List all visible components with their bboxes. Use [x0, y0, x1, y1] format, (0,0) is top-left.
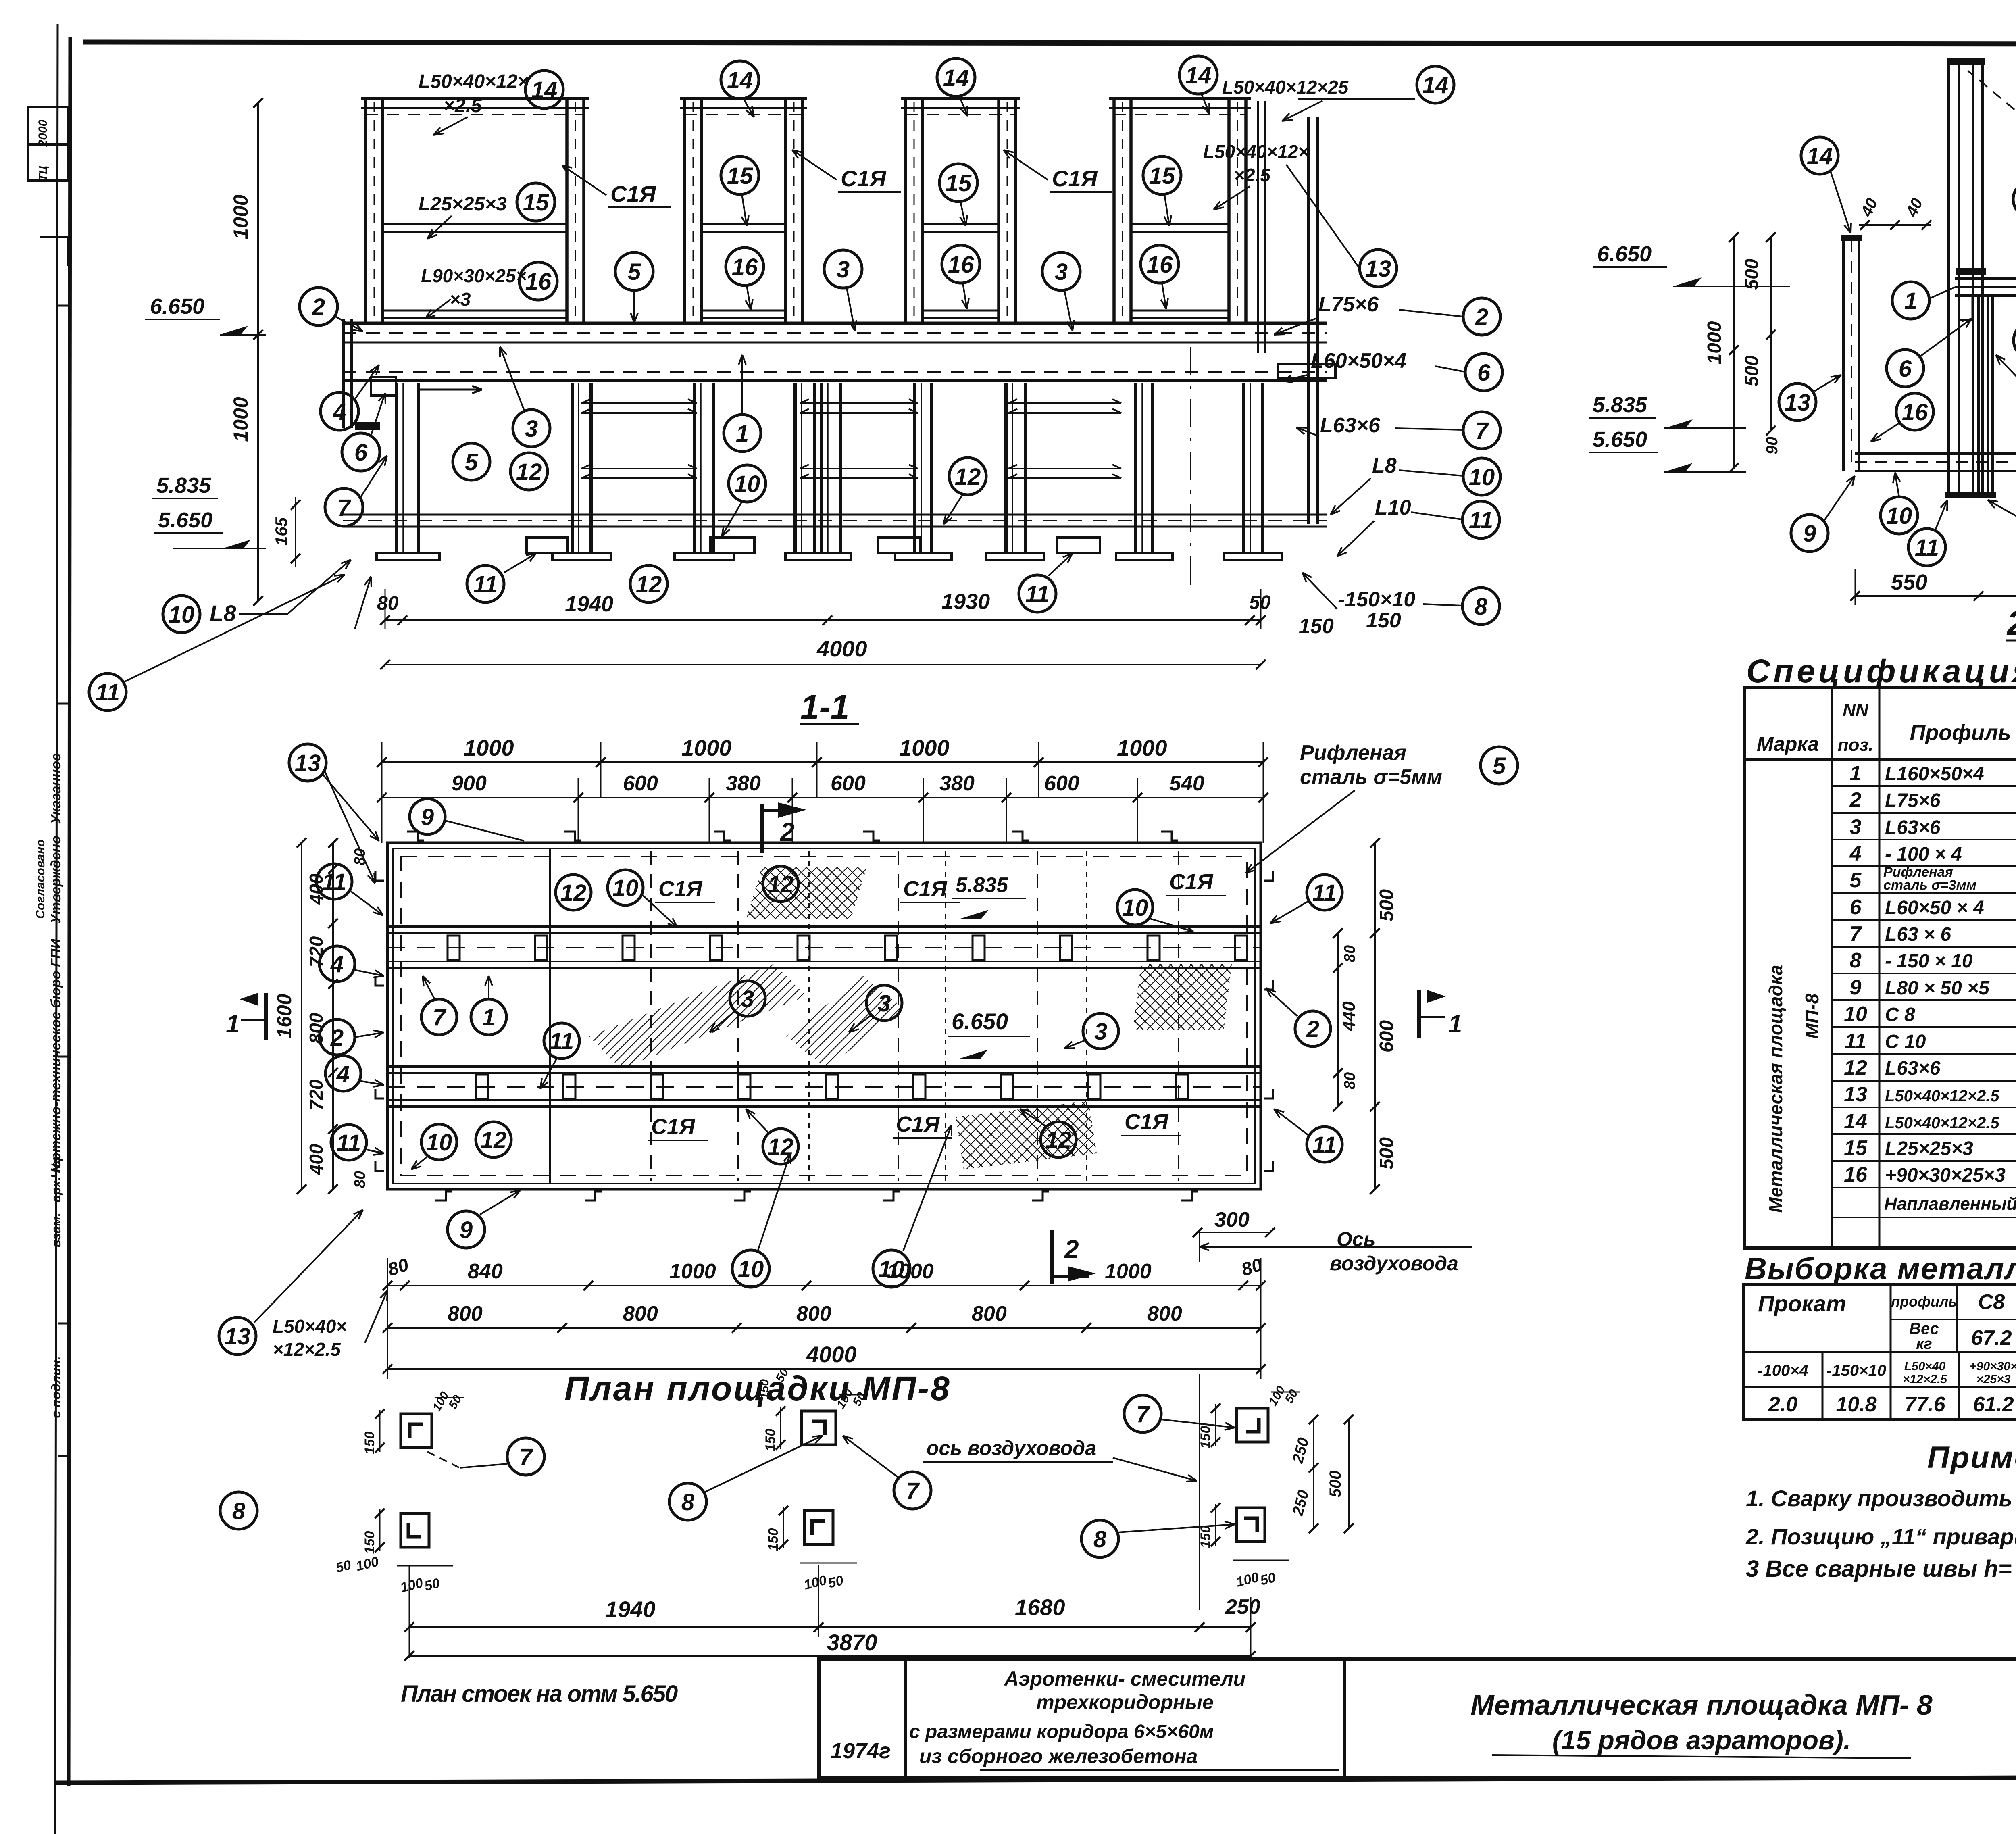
- svg-text:10: 10: [1886, 503, 1912, 529]
- svg-text:13: 13: [1844, 1083, 1867, 1106]
- svg-text:С 10: С 10: [1885, 1031, 1926, 1052]
- svg-text:14: 14: [1844, 1110, 1867, 1133]
- svg-text:8: 8: [1850, 949, 1862, 972]
- svg-text:13: 13: [1365, 256, 1391, 282]
- callout 5 section 2-2: [2013, 180, 2016, 218]
- svg-text:МП-8: МП-8: [1801, 993, 1822, 1039]
- svg-text:C1Я: C1Я: [1125, 1110, 1169, 1134]
- svg-text:1: 1: [226, 1010, 240, 1038]
- plan horizontal beam band upper: [387, 925, 1261, 928]
- svg-text:5: 5: [1850, 869, 1862, 892]
- left margin corner bracket: [40, 237, 68, 266]
- section 2-2 left side channel pos13: [1842, 235, 1845, 471]
- svg-text:7: 7: [433, 1005, 447, 1031]
- svg-text:3: 3: [1094, 1019, 1107, 1045]
- svg-text:11: 11: [1025, 581, 1050, 607]
- svg-text:L63×6: L63×6: [1885, 1058, 1941, 1079]
- svg-text:12: 12: [768, 871, 794, 898]
- svg-text:×25×3: ×25×3: [1976, 1373, 2010, 1386]
- svg-text:150: 150: [766, 1528, 781, 1551]
- callout 4 left: [321, 392, 358, 430]
- svg-text:7: 7: [337, 495, 352, 521]
- svg-text:Чертежно-техническое бюро ГПИ: Чертежно-техническое бюро ГПИ Утверждено…: [48, 753, 64, 1178]
- svg-text:80: 80: [1341, 1072, 1358, 1089]
- svg-text:80: 80: [352, 848, 369, 865]
- svg-text:1: 1: [1448, 1010, 1462, 1038]
- svg-text:L160×50×4: L160×50×4: [1885, 763, 1984, 785]
- svg-text:3: 3: [837, 256, 850, 283]
- callouts 14 over cages: [721, 61, 759, 99]
- svg-text:16: 16: [1844, 1163, 1868, 1186]
- svg-text:16: 16: [948, 252, 974, 278]
- svg-text:Аэротенки- смесители: Аэротенки- смесители: [1004, 1667, 1245, 1690]
- svg-text:C1Я: C1Я: [658, 877, 703, 901]
- svg-text:9: 9: [1803, 521, 1816, 547]
- callout 9: [1791, 515, 1828, 552]
- section 2-2 beam end angle cleats: [1959, 296, 1972, 320]
- svg-text:80: 80: [1341, 945, 1358, 962]
- plan edge hook marks top: [407, 832, 424, 840]
- vyborka table frame: [1744, 1285, 2016, 1420]
- callout 10: [1881, 497, 1918, 534]
- plan interior callouts bottom row: [421, 1124, 457, 1160]
- section 1-1 pos6 bracket: [371, 377, 396, 396]
- svg-text:12: 12: [516, 459, 542, 485]
- svg-text:L50×40×12×: L50×40×12×: [1203, 141, 1309, 162]
- svg-text:15: 15: [946, 170, 972, 196]
- svg-text:8: 8: [1475, 594, 1488, 620]
- section 2-2 central left column: [1947, 60, 1950, 494]
- svg-text:C1Я: C1Я: [841, 166, 887, 191]
- svg-text:L50×40: L50×40: [1904, 1360, 1946, 1373]
- svg-text:80: 80: [377, 593, 399, 614]
- svg-text:10: 10: [426, 1130, 452, 1156]
- plan callout 13 top-left: [289, 744, 326, 781]
- svg-text:Спецификация металла на 1 марк: Спецификация металла на 1 марку: [1746, 653, 2016, 690]
- svg-text:6: 6: [1899, 356, 1912, 382]
- section 2-2 base plates: [1945, 492, 1996, 498]
- svg-text:2: 2: [1475, 304, 1488, 330]
- svg-text:NN: NN: [1843, 700, 1869, 720]
- spec table row lines: [1832, 785, 2016, 787]
- svg-text:15: 15: [1149, 163, 1175, 189]
- posts plan square S1: [401, 1414, 432, 1448]
- svg-text:14: 14: [727, 67, 753, 94]
- callout 6 left: [342, 433, 380, 471]
- posts plan axis line: [1199, 1374, 1200, 1610]
- title block frame: [819, 1659, 2016, 1778]
- svg-text:150: 150: [362, 1432, 377, 1455]
- svg-text:600: 600: [1376, 1020, 1397, 1052]
- svg-text:2.0: 2.0: [1768, 1393, 1797, 1416]
- svg-text:4: 4: [1849, 842, 1862, 865]
- svg-text:800: 800: [796, 1302, 831, 1325]
- svg-text:C1Я: C1Я: [651, 1115, 696, 1139]
- svg-text:3 Все сварные швы h= 4мм: 3 Все сварные швы h= 4мм: [1746, 1556, 2016, 1582]
- section 1-1 axis centerline: [1190, 347, 1191, 589]
- svg-text:400: 400: [306, 873, 327, 905]
- svg-text:14: 14: [531, 77, 558, 103]
- svg-text:5: 5: [1493, 753, 1506, 779]
- svg-text:L10: L10: [1375, 496, 1411, 519]
- svg-text:11: 11: [1845, 1030, 1866, 1053]
- section 1-1 cage columns: [364, 100, 367, 323]
- svg-text:12: 12: [481, 1127, 507, 1153]
- svg-text:с размерами коридора 6×5×60м: с размерами коридора 6×5×60м: [909, 1721, 1214, 1742]
- section 1-1 cage rail level 15: [383, 223, 567, 225]
- svg-text:- 100 × 4: - 100 × 4: [1885, 844, 1962, 865]
- svg-text:9: 9: [421, 804, 434, 830]
- svg-text:1000: 1000: [464, 735, 514, 761]
- svg-text:L8: L8: [1372, 454, 1397, 477]
- svg-text:10: 10: [1122, 895, 1148, 921]
- vyborka top half column lines: [1890, 1285, 1892, 1352]
- svg-text:4: 4: [333, 399, 346, 425]
- section 2-2 top small dims 40 40: [1859, 224, 1931, 226]
- svg-text:6.650: 6.650: [150, 294, 204, 319]
- svg-text:С8: С8: [1978, 1290, 2005, 1314]
- svg-text:11: 11: [1312, 1132, 1337, 1158]
- callout 7 left: [325, 488, 363, 526]
- svg-text:L25×25×3: L25×25×3: [419, 194, 507, 215]
- svg-text:150: 150: [1366, 609, 1401, 632]
- svg-text:500: 500: [1376, 889, 1397, 921]
- svg-text:500: 500: [1741, 258, 1762, 290]
- svg-text:5.650: 5.650: [1593, 427, 1647, 452]
- svg-text:900: 900: [452, 772, 487, 795]
- callout 10 bottom-left with L8 label: [163, 596, 200, 633]
- plan right side callouts: [1307, 875, 1342, 910]
- svg-text:15: 15: [523, 190, 549, 216]
- svg-text:4: 4: [330, 951, 344, 977]
- svg-text:3: 3: [1055, 259, 1068, 285]
- svg-text:кг: кг: [1916, 1336, 1932, 1353]
- svg-text:L80 × 50 ×5: L80 × 50 ×5: [1885, 977, 1990, 999]
- svg-text:600: 600: [623, 772, 658, 795]
- svg-text:C1Я: C1Я: [1052, 166, 1098, 191]
- section 1-1 base plates: [377, 553, 439, 560]
- svg-text:×3: ×3: [450, 289, 471, 310]
- svg-text:12: 12: [955, 464, 981, 490]
- sheet frame bottom border: [56, 1776, 2016, 1783]
- svg-text:80: 80: [352, 1171, 369, 1188]
- svg-text:-100×4: -100×4: [1758, 1362, 1808, 1380]
- svg-text:11: 11: [1312, 880, 1337, 906]
- callout 11 bottom-left: [89, 673, 126, 711]
- left margin edge line: [55, 24, 58, 1834]
- svg-text:10: 10: [1844, 1002, 1867, 1026]
- section 1-1 support posts: [395, 383, 398, 553]
- svg-text:540: 540: [1169, 772, 1204, 795]
- svg-text:16: 16: [1147, 252, 1173, 278]
- svg-text:из сборного железобетона: из сборного железобетона: [919, 1745, 1198, 1767]
- plan section cut 2 bottom: [1050, 1230, 1054, 1284]
- svg-text:1000: 1000: [681, 735, 732, 761]
- svg-text:1-1: 1-1: [800, 688, 849, 726]
- svg-text:3870: 3870: [827, 1630, 877, 1655]
- svg-text:10: 10: [1469, 464, 1495, 490]
- svg-text:11: 11: [473, 571, 498, 598]
- svg-text:C1Я: C1Я: [610, 181, 656, 206]
- section 1-1 left vertical dimension line: [257, 103, 259, 601]
- svg-text:440: 440: [1339, 1001, 1359, 1032]
- svg-text:380: 380: [726, 772, 761, 795]
- svg-text:C1Я: C1Я: [896, 1112, 940, 1136]
- sheet frame top border: [83, 42, 2016, 44]
- svg-text:12: 12: [636, 571, 662, 598]
- svg-text:600: 600: [831, 772, 866, 795]
- svg-text:- 150 × 10: - 150 × 10: [1885, 950, 1973, 972]
- posts plan right side dims 250/250/500: [1313, 1419, 1314, 1528]
- svg-text:L60×50 × 4: L60×50 × 4: [1885, 897, 1984, 919]
- plan inner dashed outline: [401, 857, 1247, 1175]
- svg-text:150: 150: [362, 1531, 377, 1554]
- svg-text:L50×40×12×: L50×40×12×: [419, 71, 529, 92]
- left margin stamp boxes: [28, 107, 69, 144]
- svg-text:10: 10: [169, 602, 195, 628]
- plan outer border: [387, 843, 1261, 1189]
- svg-text:15: 15: [727, 163, 753, 189]
- svg-text:10: 10: [734, 471, 760, 497]
- svg-text:3: 3: [741, 986, 754, 1012]
- left margin ticks: [58, 305, 70, 307]
- svg-text:1000: 1000: [1105, 1260, 1152, 1283]
- callouts 15 over cages: [721, 156, 759, 194]
- section mark T-1 right of plan: [1417, 990, 1421, 1038]
- svg-text:5: 5: [628, 259, 641, 285]
- svg-text:1000: 1000: [229, 397, 252, 442]
- svg-text:L60×50×4: L60×50×4: [1311, 349, 1406, 373]
- svg-text:6: 6: [354, 440, 368, 466]
- svg-text:90: 90: [1763, 437, 1781, 455]
- svg-text:+90×30×25×3: +90×30×25×3: [1885, 1165, 2006, 1186]
- svg-text:13: 13: [225, 1323, 251, 1350]
- svg-text:L50×40×12×2.5: L50×40×12×2.5: [1885, 1087, 1999, 1105]
- svg-text:500: 500: [1741, 355, 1762, 386]
- svg-text:L63×6: L63×6: [1320, 414, 1381, 437]
- plan stiffener blocks upper band: [448, 936, 460, 960]
- plan callout 13 bottom-left with label: [219, 1317, 256, 1355]
- svg-text:ось воздуховода: ось воздуховода: [927, 1437, 1096, 1459]
- svg-text:2-2: 2-2: [2006, 604, 2016, 642]
- svg-text:500: 500: [1376, 1137, 1397, 1169]
- svg-text:14: 14: [1422, 72, 1449, 98]
- svg-text:×12×2.5: ×12×2.5: [273, 1339, 341, 1360]
- svg-text:L75×6: L75×6: [1318, 293, 1379, 316]
- svg-text:План стоек на отм 5.650: План стоек на отм 5.650: [401, 1681, 678, 1707]
- svg-text:5.835: 5.835: [1593, 393, 1647, 417]
- svg-text:L90×30×25×: L90×30×25×: [421, 265, 527, 286]
- svg-text:11: 11: [1469, 507, 1493, 534]
- svg-text:16: 16: [732, 254, 758, 280]
- svg-text:1000: 1000: [1704, 321, 1725, 364]
- section 1-1 top chord beams of 4 cages: [361, 97, 589, 100]
- callout 6 left: [1887, 350, 1924, 387]
- section 1-1 cage rail level 16: [383, 310, 567, 312]
- plan left side callouts: [317, 864, 352, 899]
- svg-text:6.650: 6.650: [1597, 242, 1652, 266]
- callout 14 section 2-2 left: [1801, 137, 1838, 174]
- posts plan callout 7 group: [507, 1438, 544, 1475]
- svg-text:7: 7: [1850, 922, 1862, 946]
- svg-text:(15 рядов аэраторов).: (15 рядов аэраторов).: [1552, 1725, 1851, 1755]
- svg-text:L50×40×: L50×40×: [273, 1316, 347, 1337]
- svg-text:10.8: 10.8: [1836, 1393, 1876, 1416]
- svg-text:1000: 1000: [899, 735, 950, 761]
- svg-text:10: 10: [738, 1256, 764, 1282]
- svg-text:Наплавленный металл 0.5%: Наплавленный металл 0.5%: [1884, 1194, 2016, 1214]
- callouts 16 in cages: [726, 248, 764, 286]
- svg-text:поз.: поз.: [1838, 735, 1873, 755]
- svg-text:Примечания:: Примечания:: [1927, 1440, 2016, 1475]
- svg-text:Выборка металла на площадку МП: Выборка металла на площадку МП-8: [1745, 1252, 2016, 1286]
- plan callout 9 top-left: [410, 799, 445, 834]
- svg-text:7: 7: [906, 1478, 920, 1504]
- svg-text:5.650: 5.650: [158, 508, 212, 532]
- svg-text:1000: 1000: [229, 194, 252, 239]
- svg-text:61.2: 61.2: [1973, 1393, 2014, 1416]
- svg-text:11: 11: [1915, 535, 1939, 561]
- posts plan small dims: [379, 1410, 381, 1452]
- svg-text:500: 500: [1327, 1471, 1344, 1498]
- vyborka bottom half column lines: [1822, 1352, 1824, 1420]
- svg-text:1600: 1600: [273, 994, 296, 1038]
- section 1-1 right edge angle column: [1257, 101, 1259, 353]
- svg-text:1680: 1680: [1015, 1594, 1065, 1620]
- section 2-2 inner posts pos3: [1977, 296, 1980, 494]
- svg-text:6: 6: [1477, 360, 1491, 386]
- svg-text:6: 6: [1850, 896, 1862, 919]
- svg-text:14: 14: [1807, 143, 1833, 169]
- svg-text:L50×40×12×25: L50×40×12×25: [1222, 77, 1349, 98]
- svg-text:Вес: Вес: [1909, 1320, 1939, 1338]
- svg-text:7: 7: [519, 1444, 533, 1470]
- svg-text:150: 150: [1198, 1426, 1213, 1449]
- svg-text:L63 × 6: L63 × 6: [1885, 924, 1951, 945]
- svg-text:1: 1: [482, 1005, 495, 1031]
- svg-text:4000: 4000: [806, 1342, 857, 1367]
- svg-text:800: 800: [306, 1013, 327, 1044]
- svg-text:2: 2: [1064, 1235, 1079, 1264]
- svg-text:L25×25×3: L25×25×3: [1885, 1138, 1973, 1159]
- svg-text:взам. арх. No: взам. арх. No: [49, 1156, 63, 1247]
- svg-text:L50×40×12×2.5: L50×40×12×2.5: [1885, 1114, 1999, 1132]
- svg-text:720: 720: [306, 936, 327, 967]
- svg-text:2000: 2000: [36, 119, 50, 147]
- svg-text:77.6: 77.6: [1904, 1393, 1945, 1416]
- svg-text:сталь σ=5мм: сталь σ=5мм: [1300, 765, 1442, 789]
- svg-text:15: 15: [1844, 1136, 1868, 1160]
- svg-text:9: 9: [1850, 976, 1862, 999]
- svg-text:600: 600: [1044, 772, 1079, 795]
- svg-text:12: 12: [1045, 1127, 1072, 1153]
- svg-text:2: 2: [1849, 788, 1862, 812]
- callout 2 left: [300, 288, 337, 325]
- svg-text:1: 1: [1850, 762, 1862, 785]
- svg-text:Профиль: Профиль: [1910, 721, 2011, 745]
- svg-text:трехкоридорные: трехкоридорные: [1036, 1691, 1214, 1713]
- svg-text:380: 380: [939, 772, 975, 795]
- svg-text:Рифленая: Рифленая: [1300, 741, 1406, 765]
- svg-text:7: 7: [1475, 418, 1489, 444]
- svg-text:800: 800: [623, 1302, 658, 1325]
- svg-text:13: 13: [1785, 390, 1811, 416]
- svg-text:1940: 1940: [565, 592, 613, 616]
- svg-text:1: 1: [736, 421, 749, 447]
- svg-text:67.2: 67.2: [1971, 1326, 2012, 1350]
- posts plan callout 8 group: [669, 1483, 706, 1520]
- svg-text:-150×10: -150×10: [1826, 1362, 1886, 1380]
- svg-text:1974г: 1974г: [831, 1739, 891, 1763]
- svg-text:2: 2: [330, 1025, 344, 1051]
- svg-text:150: 150: [1299, 615, 1334, 638]
- svg-text:5.835: 5.835: [956, 873, 1008, 897]
- spec table naplavlenny metal row: [1832, 1187, 2016, 1188]
- svg-text:L63×6: L63×6: [1885, 817, 1941, 838]
- svg-text:3: 3: [878, 990, 891, 1017]
- svg-text:550: 550: [1891, 570, 1927, 594]
- svg-text:2: 2: [780, 817, 795, 846]
- svg-text:×2.5: ×2.5: [1234, 165, 1271, 185]
- spec table column lines: [1831, 688, 1833, 1248]
- svg-text:сталь σ=3мм: сталь σ=3мм: [1883, 877, 1976, 893]
- plan edge hook marks left: [375, 871, 384, 881]
- svg-text:-150×10: -150×10: [1338, 588, 1415, 611]
- svg-text:10: 10: [879, 1256, 905, 1282]
- svg-text:150: 150: [1198, 1526, 1213, 1548]
- section 2-2 cross beam pos1: [1955, 277, 2016, 280]
- callout 11: [1908, 529, 1945, 566]
- svg-text:9: 9: [460, 1217, 473, 1243]
- svg-text:×12×2.5: ×12×2.5: [1903, 1373, 1947, 1386]
- svg-text:720: 720: [306, 1079, 327, 1110]
- svg-text:+90×30×: +90×30×: [1969, 1360, 2016, 1373]
- svg-text:840: 840: [468, 1260, 503, 1283]
- svg-text:13: 13: [295, 750, 321, 776]
- section 1-1 platform deck band: [343, 322, 1327, 325]
- svg-text:250: 250: [1225, 1595, 1260, 1619]
- svg-text:10: 10: [612, 875, 639, 901]
- svg-text:C1Я: C1Я: [903, 877, 948, 901]
- svg-text:3: 3: [525, 416, 538, 442]
- svg-text:3: 3: [1850, 815, 1862, 839]
- spec table header lines: [1744, 758, 2016, 761]
- svg-text:14: 14: [1185, 63, 1212, 89]
- svg-text:4000: 4000: [816, 636, 867, 661]
- section mark 1-T left of plan: [264, 993, 268, 1040]
- plan bottom callouts: [448, 1211, 485, 1248]
- plan horizontal beam band lower: [387, 1065, 1261, 1068]
- svg-text:11: 11: [96, 679, 120, 706]
- section 1-1 pads pos 11: [527, 538, 567, 553]
- svg-text:165: 165: [272, 517, 291, 546]
- svg-text:Металлическая площадка: Металлическая площадка: [1765, 965, 1786, 1213]
- plan vertical dividers: [549, 848, 551, 1184]
- svg-text:4: 4: [336, 1061, 350, 1087]
- section 2-2 deck band: [1855, 452, 2016, 455]
- svg-text:2: 2: [312, 294, 325, 320]
- svg-text:400: 400: [306, 1144, 327, 1175]
- svg-text:800: 800: [448, 1302, 483, 1325]
- callout 1 left: [1892, 282, 1929, 319]
- svg-text:1: 1: [1904, 288, 1917, 314]
- svg-text:12: 12: [1844, 1056, 1867, 1080]
- svg-text:1. Сварку производить электрод: 1. Сварку производить электродами э-42 Г…: [1746, 1486, 2016, 1511]
- svg-text:профиль: профиль: [1891, 1293, 1957, 1310]
- callout 3: [2014, 322, 2016, 359]
- plan edge hook marks bottom: [435, 1192, 452, 1200]
- svg-text:1930: 1930: [941, 590, 990, 614]
